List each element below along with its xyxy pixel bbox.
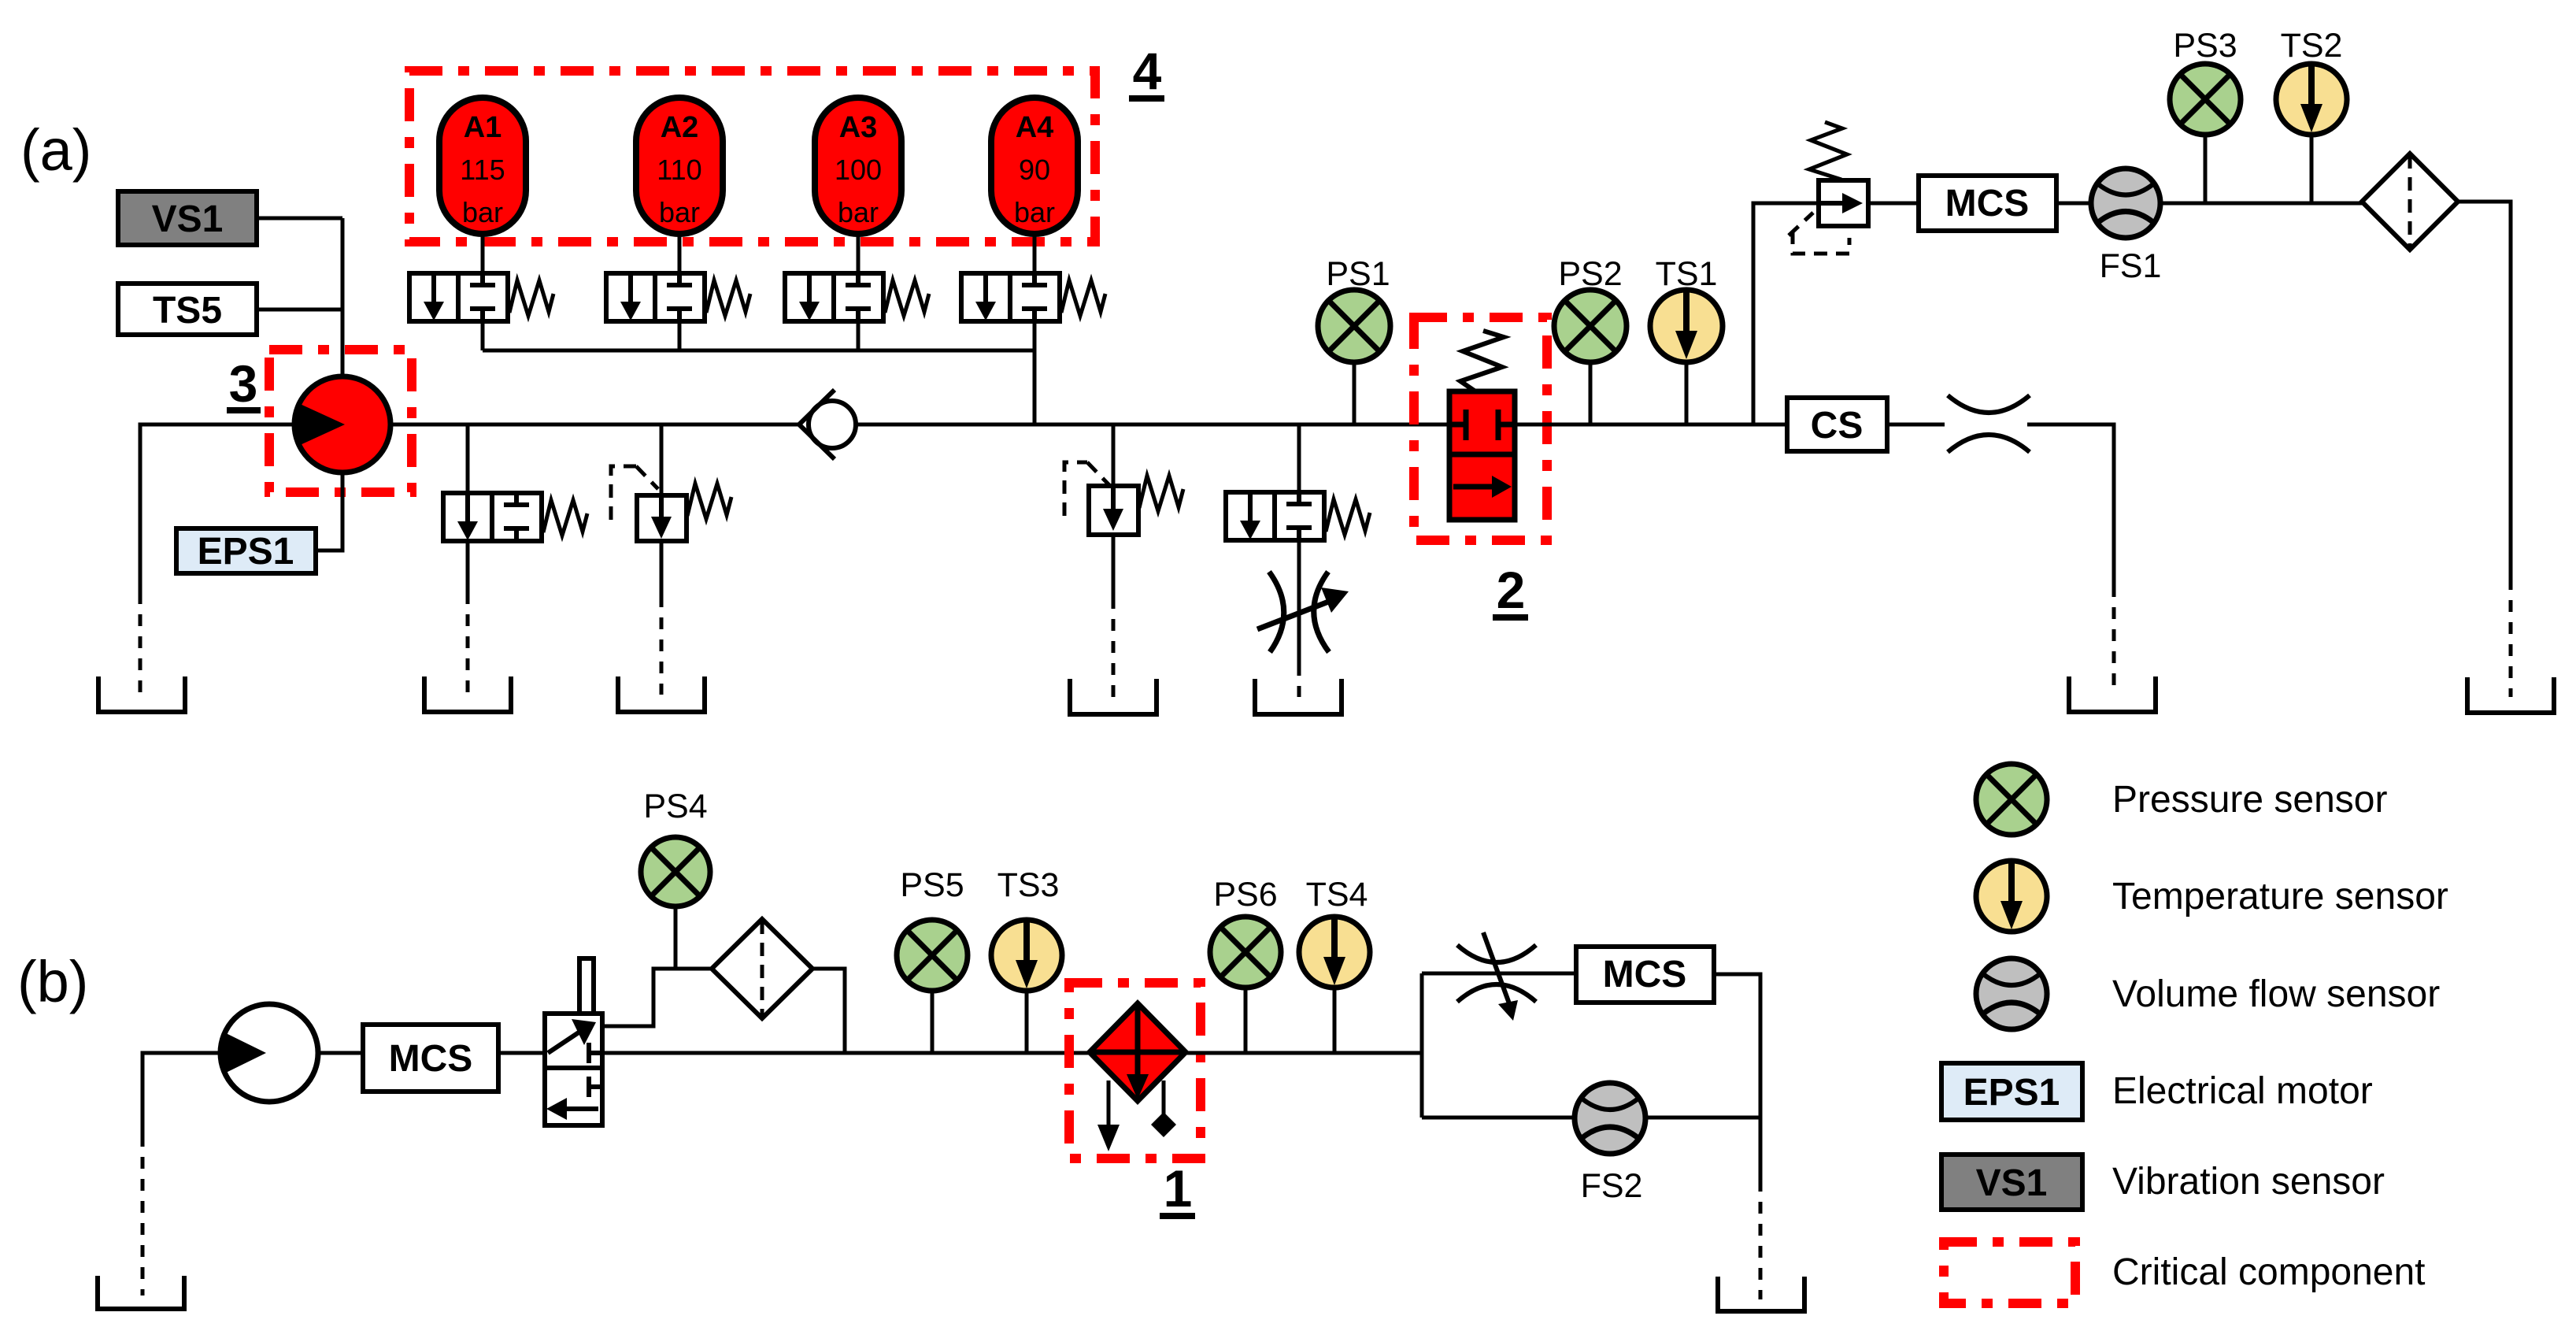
spring of pressure regulator (item 2) — [1460, 331, 1504, 391]
pressure relief valve RV1 (proportional) — [611, 466, 731, 541]
wire A2 to valve AV2 — [678, 234, 682, 273]
accumulator A2 110 bar — [636, 98, 723, 234]
measurement converter system MCS (cooling loop a) — [1919, 176, 2056, 231]
svg-text:Volume flow sensor: Volume flow sensor — [2112, 973, 2440, 1015]
wire return to tank T9 — [1759, 1118, 1763, 1180]
pump P2 (cooling circuit) — [220, 1004, 318, 1102]
filter F1 — [2362, 154, 2458, 250]
wire AV2 drop to manifold — [678, 321, 682, 350]
wire FS2 to right riser — [1645, 1116, 1760, 1120]
wire accumulator manifold — [483, 349, 1034, 353]
svg-text:(a): (a) — [20, 117, 91, 183]
svg-text:A3: A3 — [839, 111, 878, 144]
svg-text:PS3: PS3 — [2173, 27, 2237, 65]
svg-text:A1: A1 — [464, 111, 502, 144]
valve AV1 (2/2 accumulator shut-off) — [409, 273, 553, 321]
accumulator A1 115 bar — [439, 98, 526, 234]
vibration sensor VS1 — [118, 191, 257, 245]
svg-text:FS1: FS1 — [2100, 247, 2162, 285]
wire upper branch to throttle TH2 — [1422, 972, 1576, 976]
directional valve VB with actuator — [545, 958, 602, 1125]
wire MCS to right riser — [1714, 974, 1760, 1118]
wire riser from main line to cooling loop — [1753, 203, 1819, 424]
pump P1 (main hydraulic pump, critical item 3) — [294, 376, 390, 473]
wire pump P2 to MCS — [318, 1051, 363, 1055]
wire shaft vertical to pump P1 — [341, 218, 345, 377]
temperature sensor TS2 — [2310, 135, 2314, 203]
pressure sensor PS5 — [931, 991, 935, 1053]
wire dashed suction to tank T1 — [139, 592, 142, 695]
measurement converter system MCS (pump b) — [363, 1025, 498, 1092]
svg-text:PS2: PS2 — [1558, 255, 1622, 293]
tank T5 — [1255, 679, 1342, 714]
check valve CV1 — [799, 390, 856, 459]
wire V2 to throttle TH1 — [1297, 540, 1301, 664]
critical component frame around accumulators (item 4) — [409, 71, 1095, 242]
cooler drain with plug — [1162, 1081, 1166, 1114]
wire A3 to valve AV3 — [857, 234, 861, 273]
wire filter F1 return to tank T7 — [2458, 202, 2511, 578]
legend pressure sensor symbol — [1976, 764, 2047, 835]
wire main line to CS — [1753, 423, 1787, 427]
valve AV3 — [785, 273, 929, 321]
temperature sensor TS3 — [1025, 991, 1029, 1053]
tank T6 — [2069, 676, 2156, 712]
svg-text:100: 100 — [835, 154, 882, 186]
wire branch to valve V2 — [1297, 424, 1301, 492]
pressure relief valve RV3 — [1789, 122, 1868, 254]
svg-text:bar: bar — [838, 196, 879, 228]
accumulator A3 100 bar — [815, 98, 901, 234]
wire main line through sensors PS2 TS1 — [1515, 423, 1787, 427]
svg-text:115: 115 — [460, 154, 505, 186]
cooling efficiency sensor CS — [1787, 398, 1887, 451]
svg-text:PS1: PS1 — [1326, 255, 1390, 293]
wire V1 to tank T2 — [466, 541, 470, 592]
svg-text:TS1: TS1 — [1656, 255, 1718, 293]
pressure sensor PS6 — [1244, 988, 1248, 1053]
svg-text:(b): (b) — [17, 949, 88, 1014]
throttle TH1 (adjustable) — [1257, 572, 1349, 652]
svg-text:bar: bar — [462, 196, 503, 228]
legend vibration sensor VS1 — [1941, 1155, 2082, 1210]
tank T9 — [1718, 1277, 1804, 1311]
cooler drain with arrow — [1107, 1081, 1111, 1128]
svg-text:Pressure sensor: Pressure sensor — [2112, 779, 2387, 821]
wire AV3 drop to manifold — [857, 321, 861, 350]
temperature sensor TS1 — [1685, 362, 1689, 424]
svg-text:TS2: TS2 — [2281, 27, 2343, 65]
svg-text:MCS: MCS — [1945, 183, 2030, 224]
wire valve VB top port to filter F2 — [602, 969, 712, 1026]
tank T3 — [618, 676, 705, 712]
wire A4 to valve AV4 — [1033, 234, 1037, 273]
svg-text:2: 2 — [1497, 561, 1526, 619]
pressure sensor PS4 — [674, 906, 678, 969]
svg-text:PS5: PS5 — [900, 866, 964, 904]
temperature sensor TS5 — [118, 284, 257, 335]
svg-text:bar: bar — [659, 196, 700, 228]
svg-text:bar: bar — [1014, 196, 1055, 228]
wire suction line left of pump P1 — [140, 424, 294, 592]
tank T7 — [2467, 677, 2554, 713]
svg-text:CS: CS — [1811, 405, 1864, 447]
wire cooling line cooler to branch — [1186, 1051, 1422, 1055]
svg-text:MCS: MCS — [1603, 954, 1687, 995]
wire throttle TH1 to tank T5 — [1297, 664, 1301, 697]
wire lower branch to FS2 — [1422, 1116, 1575, 1120]
svg-text:TS3: TS3 — [997, 866, 1060, 904]
filter F2 — [712, 919, 812, 1018]
svg-text:PS4: PS4 — [643, 788, 707, 825]
pressure sensor PS1 — [1353, 362, 1356, 424]
wire branch to relief valve RV2 — [1112, 424, 1116, 486]
legend critical component frame — [1944, 1242, 2075, 1303]
legend volume flow sensor symbol — [1976, 958, 2047, 1029]
valve V1 (2/2 unloading) — [443, 493, 587, 541]
critical component frame around cooler (item 1) — [1069, 983, 1201, 1158]
valve AV4 — [961, 273, 1105, 321]
nozzle / venturi — [1948, 395, 2030, 452]
svg-text:VS1: VS1 — [1976, 1162, 2048, 1204]
tank T8 — [98, 1276, 184, 1309]
wire MCS to FS1 — [2056, 202, 2091, 206]
wire MCS to valve VB — [498, 1051, 546, 1055]
wire RV1 to tank T3 — [660, 541, 664, 595]
pressure sensor PS3 — [2204, 135, 2208, 203]
valve AV2 — [606, 273, 750, 321]
critical component frame around pump P1 — [269, 350, 412, 492]
svg-text:4: 4 — [1133, 42, 1162, 100]
wire A1 to valve AV1 — [481, 234, 485, 273]
wire main pressure line from pump P1 — [390, 423, 799, 427]
wire AV4 drop joining manifold to main line — [1033, 321, 1037, 424]
legend temperature sensor symbol — [1976, 861, 2047, 932]
tank T1 — [98, 676, 185, 712]
svg-text:Vibration sensor: Vibration sensor — [2112, 1161, 2385, 1203]
svg-text:VS1: VS1 — [152, 198, 224, 240]
wire FS1 to filter F1 — [2160, 202, 2362, 206]
wire cooling main line — [602, 1051, 1090, 1055]
measurement converter system MCS (cooling b) — [1576, 947, 1714, 1003]
volume flow sensor FS2 — [1575, 1083, 1645, 1154]
pressure regulator valve (critical item 2) — [1449, 391, 1515, 520]
legend electrical motor EPS1 — [1941, 1063, 2082, 1120]
tank T4 — [1070, 679, 1157, 714]
svg-text:A4: A4 — [1016, 111, 1054, 144]
accumulator A4 90 bar — [991, 98, 1078, 234]
wire RV3 to MCS — [1868, 202, 1919, 206]
wire filter F2 down to cooling main line — [812, 969, 845, 1053]
svg-text:110: 110 — [657, 154, 701, 186]
wire branch split node — [1420, 973, 1424, 1118]
wire TS5 to motor shaft node — [257, 308, 342, 312]
pressure sensor PS2 — [1589, 362, 1593, 424]
wire AV1 drop to manifold — [481, 321, 485, 350]
svg-text:A2: A2 — [661, 111, 699, 144]
wire RV2 to tank T4 — [1112, 535, 1116, 597]
throttle TH2 (adjustable) — [1457, 932, 1536, 1021]
wire pump P1 to electrical motor EPS1 — [316, 473, 342, 550]
svg-text:FS2: FS2 — [1581, 1167, 1643, 1205]
svg-text:Critical component: Critical component — [2112, 1251, 2426, 1293]
svg-text:TS5: TS5 — [153, 290, 222, 332]
svg-text:TS4: TS4 — [1306, 876, 1368, 914]
pressure relief valve RV2 (proportional) — [1064, 462, 1183, 535]
critical component frame around valve 2 — [1414, 317, 1547, 540]
wire branch to valve V1 — [466, 424, 470, 493]
svg-text:Temperature sensor: Temperature sensor — [2112, 876, 2448, 917]
volume flow sensor FS1 — [2091, 169, 2160, 238]
wire suction to pump P2 — [142, 1053, 220, 1135]
tank T2 — [424, 676, 511, 712]
wire main line check valve to red valve 2 — [856, 423, 1449, 427]
wire nozzle to tank T6 — [2027, 424, 2114, 585]
svg-text:EPS1: EPS1 — [1963, 1072, 2060, 1114]
svg-text:EPS1: EPS1 — [198, 531, 294, 573]
cooler C1 (critical item 1) — [1090, 1003, 1186, 1101]
svg-text:3: 3 — [229, 354, 258, 413]
svg-text:90: 90 — [1019, 154, 1050, 186]
wire VS1 to motor shaft node — [257, 217, 342, 221]
wire branch to relief valve RV1 — [660, 424, 664, 495]
electrical motor EPS1 — [176, 528, 316, 573]
wire CS to nozzle — [1887, 423, 1945, 427]
valve V2 (2/2 with throttle) — [1226, 492, 1370, 540]
svg-text:MCS: MCS — [389, 1038, 473, 1080]
svg-text:PS6: PS6 — [1213, 876, 1277, 914]
svg-text:Electrical motor: Electrical motor — [2112, 1070, 2373, 1112]
temperature sensor TS4 — [1333, 988, 1337, 1053]
svg-text:1: 1 — [1164, 1159, 1193, 1218]
